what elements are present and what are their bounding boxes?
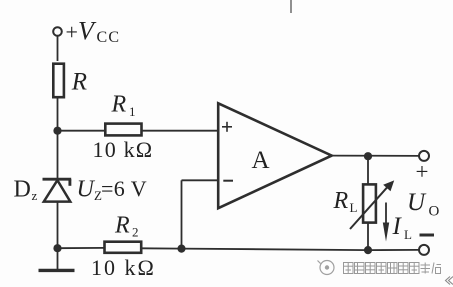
bottom rail wire node C to node D (182, 249, 369, 251)
svg-text:R: R (111, 92, 127, 118)
terminal output + (419, 151, 429, 161)
op-amp + input marker (222, 122, 232, 132)
load resistor RL (363, 184, 376, 222)
node E (RL bottom junction) (364, 246, 372, 254)
node A (R / R1 junction) (53, 127, 61, 135)
svg-text:L: L (350, 200, 358, 215)
svg-text:+: + (66, 20, 78, 45)
page mark right edge (446, 277, 453, 285)
svg-text:U: U (407, 189, 427, 216)
ground (39, 269, 75, 272)
resistor R1 (105, 124, 141, 136)
stray scan line top (290, 0, 292, 13)
svg-text:A: A (252, 147, 270, 174)
svg-text:=6 V: =6 V (101, 176, 147, 201)
op-amp - input marker (223, 180, 233, 182)
output wire (332, 155, 420, 157)
svg-text:2: 2 (132, 224, 139, 239)
svg-text:10 kΩ: 10 kΩ (93, 137, 154, 162)
label - (output) (420, 234, 435, 237)
op-amp A (218, 103, 332, 208)
bottom rail wire R2 to node C (142, 247, 182, 249)
terminal output - (419, 245, 429, 255)
current arrow IL (385, 203, 387, 227)
node C (feedback junction) (177, 245, 185, 253)
watermark text (stylized glyph blocks) (344, 263, 442, 274)
feedback wire vertical (181, 180, 183, 248)
svg-text:CC: CC (97, 29, 121, 46)
terminal +VCC (53, 27, 62, 36)
resistor R2 (105, 242, 142, 253)
wire VCC to R (57, 36, 59, 61)
zener diode Dz (43, 179, 72, 201)
wire zener to bottom node (57, 202, 59, 271)
svg-text:z: z (32, 188, 38, 203)
wire R1 to op-amp + input (143, 130, 219, 132)
svg-text:R: R (114, 212, 130, 238)
svg-text:10 kΩ: 10 kΩ (91, 255, 156, 280)
bottom rail to output - terminal (368, 249, 419, 251)
svg-text:O: O (429, 204, 440, 220)
watermark logo (318, 261, 335, 275)
svg-text:L: L (404, 227, 412, 242)
svg-text:R: R (71, 69, 87, 96)
svg-text:R: R (333, 188, 349, 214)
wire node A to R1 (58, 130, 105, 132)
svg-text:U: U (77, 177, 96, 203)
resistor R (53, 64, 64, 97)
wire RL to bottom rail (367, 223, 369, 251)
feedback wire to op-amp - input (182, 179, 219, 181)
svg-text:D: D (14, 176, 31, 202)
wire node D to RL (367, 156, 369, 184)
svg-text:1: 1 (129, 104, 136, 119)
node D (output / RL junction) (364, 152, 372, 160)
RL variable arrow (350, 186, 389, 229)
svg-text:+: + (416, 159, 429, 184)
wire R to zener (through node A) (57, 99, 59, 180)
node B (zener / R2 / ground junction) (53, 244, 61, 252)
wire node B to R2 (58, 247, 105, 249)
